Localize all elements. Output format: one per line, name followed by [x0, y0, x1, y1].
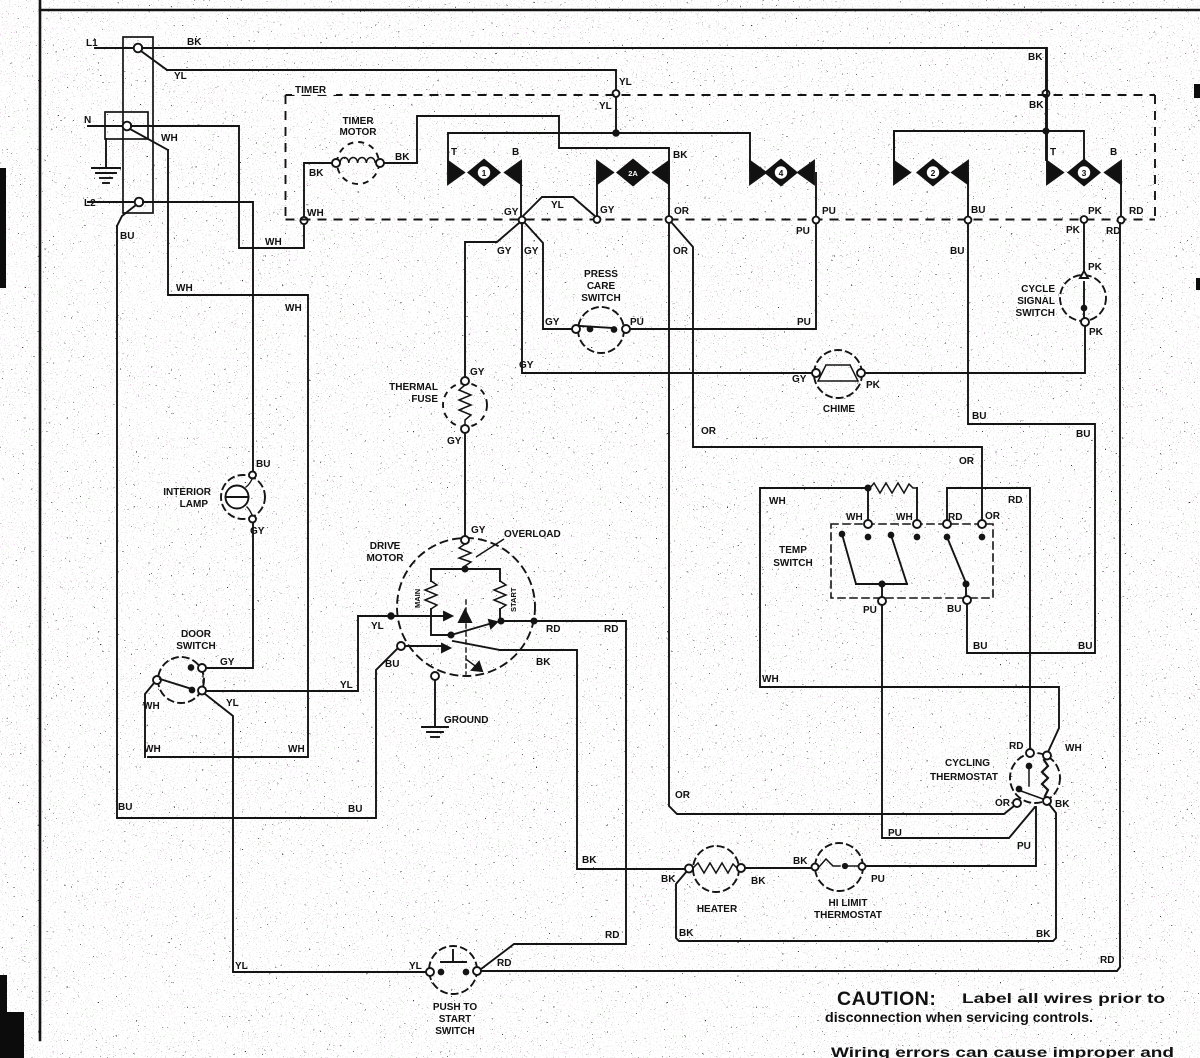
wire GY cam1 to chime: [522, 223, 812, 373]
svg-text:BU: BU: [971, 205, 985, 216]
svg-text:BK: BK: [1055, 799, 1070, 810]
svg-text:MOTOR: MOTOR: [366, 553, 404, 564]
svg-text:WH: WH: [307, 208, 324, 219]
svg-text:PU: PU: [863, 605, 877, 616]
caution text block: [825, 988, 1174, 1058]
svg-text:PU: PU: [871, 874, 885, 885]
svg-text:SWITCH: SWITCH: [773, 558, 812, 569]
svg-text:START: START: [439, 1014, 472, 1025]
label INTERIOR LAMP: [163, 487, 212, 510]
svg-text:T: T: [451, 147, 457, 158]
svg-text:WH: WH: [846, 512, 863, 523]
wire RD push to start to timer cam 3: [481, 223, 1120, 971]
svg-text:FUSE: FUSE: [411, 394, 438, 405]
wire BU from L2 blade down left side: [117, 226, 397, 818]
junction overload to windings: [462, 566, 467, 571]
svg-text:3: 3: [1082, 168, 1087, 178]
svg-text:SIGNAL: SIGNAL: [1017, 296, 1055, 307]
svg-text:Wiring errors can cause improp: Wiring errors can cause improper and: [831, 1044, 1174, 1058]
wire BK branch to cams 4 and 5: [894, 131, 1084, 161]
centrifugal switch blade to heater: [453, 641, 500, 650]
wire OR cam2A to temp switch: [672, 223, 982, 520]
timer cam 2A: [597, 159, 669, 220]
wire PK chime to cycle signal switch: [865, 326, 1085, 373]
svg-text:YL: YL: [599, 101, 612, 112]
wire PU temp switch to hi-limit: [882, 605, 1036, 864]
svg-text:PK: PK: [1089, 327, 1104, 338]
svg-text:START: START: [509, 587, 518, 612]
svg-text:OVERLOAD: OVERLOAD: [504, 529, 561, 540]
svg-text:WH: WH: [265, 237, 282, 248]
svg-text:BK: BK: [187, 37, 202, 48]
motor ground terminal: [431, 672, 439, 680]
node L1: [95, 44, 142, 53]
motor BU terminal wire: [397, 642, 450, 652]
terminal block TB1: [105, 37, 153, 213]
svg-text:YL: YL: [235, 961, 248, 972]
svg-text:OR: OR: [674, 206, 690, 217]
svg-text:GY: GY: [220, 657, 235, 668]
label THERMAL FUSE: [389, 382, 438, 405]
wire WH N blade to door switch: [148, 150, 308, 757]
wire YL jumper between cam1 and cam2A: [522, 197, 596, 217]
svg-text:4: 4: [779, 168, 784, 178]
svg-text:WH: WH: [176, 283, 193, 294]
svg-text:RD: RD: [1100, 955, 1114, 966]
node L2: [88, 198, 143, 207]
svg-text:L2: L2: [84, 198, 96, 209]
svg-text:BK: BK: [309, 168, 324, 179]
label TIMER: [292, 82, 336, 96]
svg-text:YL: YL: [340, 680, 353, 691]
svg-text:THERMOSTAT: THERMOSTAT: [814, 910, 882, 921]
wire GY thermal fuse to drive motor: [464, 433, 466, 536]
svg-text:OR: OR: [673, 246, 689, 257]
svg-text:PU: PU: [797, 317, 811, 328]
junction RD dot: [531, 618, 536, 623]
svg-text:RD: RD: [1106, 226, 1120, 237]
timer cam 3: [1047, 47, 1121, 220]
wire PK cycle signal switch to cam 3: [1083, 223, 1085, 271]
timer cam 4: [750, 133, 816, 220]
svg-text:BK: BK: [536, 657, 551, 668]
motor GY terminal: [461, 536, 469, 544]
wire BU cam 2 to temp switch: [967, 224, 1095, 653]
svg-text:BU: BU: [1076, 429, 1090, 440]
svg-text:2A: 2A: [628, 169, 638, 178]
svg-text:T: T: [1050, 147, 1056, 158]
svg-text:HEATER: HEATER: [697, 904, 738, 915]
timer cam 1: [448, 133, 521, 220]
cycling thermostat TS1: [1010, 749, 1060, 807]
svg-text:BU: BU: [972, 411, 986, 422]
wire OR cam2A to cycling thermostat: [669, 223, 1014, 814]
svg-text:SWITCH: SWITCH: [1016, 308, 1055, 319]
svg-text:HI LIMIT: HI LIMIT: [829, 898, 868, 909]
wire BK into timer: [1045, 97, 1047, 160]
svg-text:MOTOR: MOTOR: [339, 127, 377, 138]
timer enclosure dashed border: [286, 95, 1156, 220]
svg-text:MAIN: MAIN: [413, 589, 422, 608]
junction PK cam3 on border: [1081, 216, 1088, 223]
svg-text:CYCLE: CYCLE: [1021, 284, 1055, 295]
svg-text:OR: OR: [701, 426, 717, 437]
junction main winding node: [448, 632, 453, 637]
svg-text:GY: GY: [545, 317, 560, 328]
svg-text:B: B: [1110, 147, 1117, 158]
start winding: [465, 569, 506, 618]
wire BK motor to heater: [500, 650, 684, 869]
svg-text:DOOR: DOOR: [181, 629, 212, 640]
svg-text:BU: BU: [385, 659, 399, 670]
chime CH: [812, 350, 865, 398]
L2 switch blade: [117, 205, 136, 226]
svg-text:GY: GY: [447, 436, 462, 447]
svg-text:WH: WH: [1065, 743, 1082, 754]
label PRESS CARE SWITCH: [581, 269, 620, 304]
wire YL from L1 blade to timer: [167, 70, 616, 90]
page border left: [39, 0, 42, 1040]
svg-text:WH: WH: [161, 133, 178, 144]
svg-text:BK: BK: [1036, 929, 1051, 940]
svg-text:SWITCH: SWITCH: [435, 1026, 474, 1037]
junction start winding RD node: [498, 618, 503, 623]
svg-text:WH: WH: [769, 496, 786, 507]
push to start switch S3: [426, 946, 481, 994]
wire GY cam1 to thermal fuse: [465, 223, 519, 377]
svg-text:YL: YL: [371, 621, 384, 632]
svg-text:GY: GY: [250, 526, 265, 537]
svg-text:WH: WH: [762, 674, 779, 685]
svg-text:B: B: [512, 147, 519, 158]
junction BK on timer top border: [1043, 90, 1050, 97]
node N: [88, 122, 131, 131]
wire GY door switch to lamp: [206, 523, 253, 668]
label OVERLOAD with pointer: [476, 529, 561, 557]
cycle signal switch S5: [1060, 271, 1106, 326]
svg-text:RD: RD: [1129, 206, 1143, 217]
svg-text:BK: BK: [1029, 100, 1044, 111]
svg-text:BU: BU: [256, 459, 270, 470]
svg-text:PK: PK: [1088, 206, 1103, 217]
label DRIVE MOTOR: [366, 541, 404, 564]
svg-text:OR: OR: [995, 798, 1011, 809]
svg-text:disconnection when servicing c: disconnection when servicing controls.: [825, 1009, 1093, 1025]
wire YL into timer to cam feed line: [615, 97, 617, 133]
junction PU cam4 on border: [813, 217, 820, 224]
wire PU hi-limit to junction: [866, 865, 1036, 867]
svg-text:PU: PU: [1017, 841, 1031, 852]
junction BK feed: [1043, 128, 1048, 133]
wire WH with resistor: [760, 483, 917, 520]
svg-text:PRESS: PRESS: [584, 269, 618, 280]
door switch S1: [153, 657, 206, 703]
wire BK cycling thermostat loop to heater: [676, 804, 1056, 941]
label PUSH TO START SWITCH: [433, 1002, 477, 1037]
svg-text:CYCLING: CYCLING: [945, 758, 990, 769]
L1 switch blade: [141, 51, 167, 70]
junction YL node: [613, 130, 619, 136]
label DOOR SWITCH: [176, 629, 215, 652]
svg-text:Label all wires prior to: Label all wires prior to: [962, 990, 1165, 1006]
svg-text:PK: PK: [1088, 262, 1103, 273]
wire RD temp switch to cycling thermostat: [947, 488, 1030, 749]
svg-text:BU: BU: [947, 604, 961, 615]
svg-text:PUSH TO: PUSH TO: [433, 1002, 477, 1013]
svg-text:RD: RD: [497, 958, 511, 969]
junction OR cam2A on border: [666, 216, 673, 223]
svg-text:RD: RD: [948, 512, 962, 523]
hi-limit thermostat TS2: [812, 843, 866, 891]
svg-text:BK: BK: [582, 855, 597, 866]
svg-text:BU: BU: [973, 641, 987, 652]
centrifugal switch actuator: [459, 600, 482, 674]
svg-text:2: 2: [931, 168, 936, 178]
svg-text:PU: PU: [796, 226, 810, 237]
ground symbol: [422, 727, 448, 737]
motor YL terminal wire: [358, 612, 452, 620]
svg-text:TEMP: TEMP: [779, 545, 807, 556]
svg-text:CARE: CARE: [587, 281, 616, 292]
page border top: [40, 9, 1200, 12]
wire RD motor to bottom: [481, 621, 626, 969]
svg-text:BU: BU: [950, 246, 964, 257]
timer cam 2: [894, 131, 968, 220]
svg-text:BK: BK: [673, 150, 688, 161]
svg-text:RD: RD: [546, 624, 560, 635]
svg-text:WH: WH: [285, 303, 302, 314]
svg-text:YL: YL: [409, 961, 422, 972]
junction GY cam2A on border: [594, 216, 601, 223]
svg-text:RD: RD: [605, 930, 619, 941]
wire WH to cycling thermostat: [760, 488, 1059, 752]
wire BK from L1 to timer cam 5: [142, 48, 1046, 89]
svg-text:DRIVE: DRIVE: [370, 541, 401, 552]
svg-text:GROUND: GROUND: [444, 715, 488, 726]
svg-text:BK: BK: [661, 874, 676, 885]
svg-text:BK: BK: [1028, 52, 1043, 63]
svg-text:BK: BK: [679, 928, 694, 939]
wire WH door switch stub: [145, 683, 154, 757]
wire YL door switch to push to start: [205, 694, 426, 972]
svg-text:BU: BU: [120, 231, 134, 242]
wire GY cam1 to press care switch: [525, 223, 572, 329]
svg-text:GY: GY: [471, 525, 486, 536]
timer motor TM: [332, 142, 384, 184]
svg-text:PK: PK: [866, 380, 881, 391]
junction BU cam2 on border: [965, 217, 972, 224]
svg-text:BK: BK: [793, 856, 808, 867]
svg-text:OR: OR: [985, 511, 1001, 522]
svg-text:WH: WH: [896, 512, 913, 523]
svg-text:RD: RD: [1008, 495, 1022, 506]
svg-text:GY: GY: [600, 205, 615, 216]
centrifugal switch blade to start: [451, 620, 497, 635]
svg-text:GY: GY: [524, 246, 539, 257]
ground wire: [434, 680, 436, 727]
svg-text:SWITCH: SWITCH: [581, 293, 620, 304]
svg-text:YL: YL: [174, 71, 187, 82]
svg-text:BK: BK: [395, 152, 410, 163]
wire YL cam feed line to cams 1 and 3: [448, 132, 750, 134]
heater HTR: [685, 846, 745, 892]
label CYCLING THERMOSTAT: [930, 758, 998, 783]
svg-text:GY: GY: [519, 360, 534, 371]
svg-text:L1: L1: [86, 38, 98, 49]
wire BK timer motor to cam 2A: [384, 116, 669, 163]
svg-text:CAUTION:: CAUTION:: [837, 988, 936, 1010]
svg-text:GY: GY: [792, 374, 807, 385]
svg-text:PU: PU: [630, 317, 644, 328]
svg-text:PK: PK: [1066, 225, 1081, 236]
main winding: [425, 569, 465, 635]
svg-text:TIMER: TIMER: [342, 116, 374, 127]
svg-text:N: N: [84, 115, 91, 126]
svg-text:PU: PU: [822, 206, 836, 217]
svg-text:BU: BU: [1078, 641, 1092, 652]
label TEMP SWITCH: [773, 545, 812, 569]
thermal fuse F1: [443, 377, 487, 433]
wire WH from N to timer motor: [131, 126, 333, 248]
svg-text:LAMP: LAMP: [180, 499, 209, 510]
junction RD cam3 on border: [1118, 217, 1125, 224]
svg-text:GY: GY: [504, 207, 519, 218]
interior lamp LP: [221, 472, 265, 523]
svg-text:SWITCH: SWITCH: [176, 641, 215, 652]
wire BK heater to hi-limit: [745, 867, 811, 869]
svg-text:WH: WH: [144, 744, 161, 755]
svg-text:WH: WH: [143, 701, 160, 712]
svg-text:RD: RD: [604, 624, 618, 635]
svg-text:BU: BU: [348, 804, 362, 815]
svg-text:YL: YL: [619, 77, 632, 88]
wire YL door switch to motor: [206, 616, 358, 691]
svg-text:TIMER: TIMER: [295, 85, 327, 96]
svg-text:YL: YL: [551, 200, 564, 211]
svg-text:BU: BU: [118, 802, 132, 813]
svg-text:THERMOSTAT: THERMOSTAT: [930, 772, 998, 783]
svg-text:1: 1: [482, 168, 487, 178]
N switch blade: [130, 129, 168, 150]
svg-text:CHIME: CHIME: [823, 404, 856, 415]
svg-text:OR: OR: [959, 456, 975, 467]
press care switch S2: [572, 307, 630, 353]
svg-text:INTERIOR: INTERIOR: [163, 487, 212, 498]
wire BU from L2 to interior lamp: [143, 202, 253, 471]
junction WH on timer bottom border: [300, 217, 307, 224]
label CYCLE SIGNAL SWITCH: [1016, 284, 1056, 319]
svg-text:BK: BK: [751, 876, 766, 887]
temp switch S4: [831, 520, 993, 605]
label HI LIMIT THERMOSTAT: [814, 898, 882, 921]
overload protector: [459, 544, 471, 566]
svg-text:THERMAL: THERMAL: [389, 382, 438, 393]
svg-text:GY: GY: [470, 367, 485, 378]
svg-text:OR: OR: [675, 790, 691, 801]
junction GY cam1 on border: [519, 217, 526, 224]
svg-text:RD: RD: [1009, 741, 1023, 752]
svg-text:PU: PU: [888, 828, 902, 839]
wire PU press care switch to timer: [630, 224, 816, 329]
ground at supply: [92, 139, 120, 183]
junction YL on timer top border: [613, 90, 620, 97]
drive motor M1 outline: [397, 538, 535, 676]
svg-text:YL: YL: [226, 698, 239, 709]
svg-text:GY: GY: [497, 246, 512, 257]
svg-text:WH: WH: [288, 744, 305, 755]
label TIMER MOTOR: [339, 116, 377, 138]
